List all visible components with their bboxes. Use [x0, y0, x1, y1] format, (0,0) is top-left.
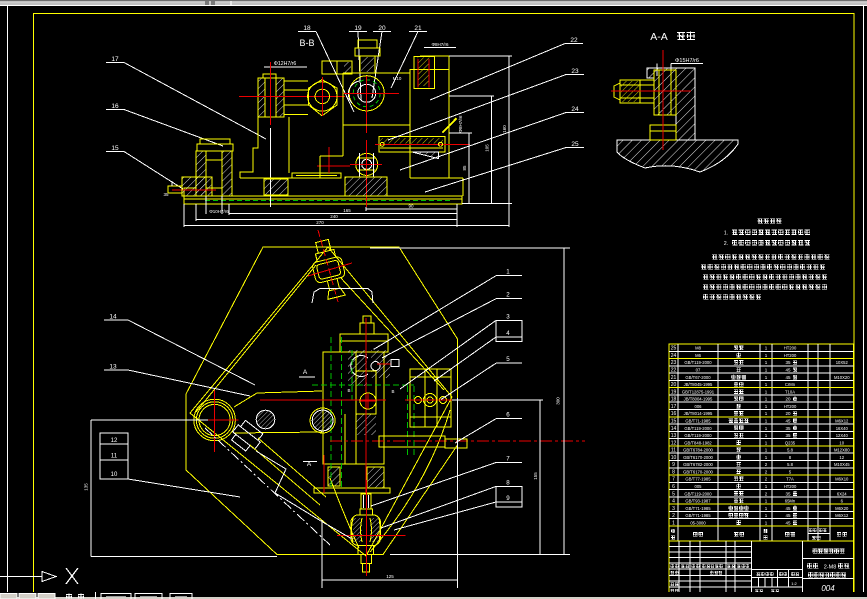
svg-text:19: 19 [354, 25, 362, 32]
svg-text:23: 23 [571, 68, 579, 75]
svg-text:12X40: 12X40 [836, 433, 849, 438]
svg-text:M6X12: M6X12 [835, 513, 849, 518]
svg-text:GB/T71-1985: GB/T71-1985 [685, 506, 711, 511]
svg-text:B: B [347, 388, 350, 393]
svg-text:1.: 1. [724, 231, 728, 237]
svg-text:15: 15 [671, 418, 677, 424]
svg-text:14: 14 [109, 314, 117, 321]
svg-text:14: 14 [671, 426, 677, 432]
svg-text:GB/T848-1982: GB/T848-1982 [684, 440, 712, 445]
svg-text:160: 160 [502, 125, 507, 133]
svg-text:35: 35 [163, 192, 169, 197]
svg-text:8: 8 [506, 479, 510, 486]
svg-text:21: 21 [414, 25, 422, 32]
svg-text:105: 105 [485, 144, 490, 152]
svg-text:10: 10 [111, 472, 118, 478]
svg-text:12: 12 [671, 440, 677, 446]
svg-text:A: A [303, 369, 308, 376]
svg-text:3: 3 [672, 506, 675, 512]
svg-text:Φ12H7/r6: Φ12H7/r6 [274, 61, 297, 67]
svg-text:A-A: A-A [650, 31, 668, 43]
svg-text:12: 12 [839, 455, 844, 460]
svg-text:6: 6 [506, 412, 510, 419]
svg-text:HT200: HT200 [784, 353, 797, 358]
svg-text:11: 11 [671, 448, 676, 454]
svg-text:20: 20 [785, 397, 791, 402]
svg-text:5: 5 [672, 491, 675, 497]
svg-text:6X24: 6X24 [837, 491, 847, 496]
svg-text:45: 45 [785, 520, 791, 525]
svg-text:13: 13 [109, 364, 117, 371]
svg-text:240: 240 [330, 214, 338, 219]
svg-text:45: 45 [785, 368, 791, 373]
svg-text:M10: M10 [393, 76, 402, 81]
svg-text:20: 20 [378, 25, 386, 32]
svg-text:2: 2 [506, 292, 510, 299]
svg-text:45: 45 [785, 506, 791, 511]
svg-text:GB/T12875-1991: GB/T12875-1991 [682, 389, 715, 394]
svg-text:M10X45: M10X45 [834, 462, 850, 467]
svg-text:2.: 2. [724, 241, 728, 247]
svg-text:10: 10 [839, 440, 844, 445]
svg-text:B: B [391, 389, 394, 394]
svg-text:M8: M8 [695, 346, 701, 351]
svg-text:07: 07 [696, 368, 701, 373]
svg-text:GB/T71-1985: GB/T71-1985 [685, 418, 711, 423]
svg-text:3: 3 [506, 313, 510, 320]
svg-text:16: 16 [111, 103, 119, 110]
svg-text:22: 22 [570, 37, 578, 44]
svg-text:7: 7 [672, 477, 675, 483]
svg-text:JB/T8014-1995: JB/T8014-1995 [684, 411, 713, 416]
svg-text:M6X10: M6X10 [835, 477, 849, 482]
svg-text:GB/T6784-2000: GB/T6784-2000 [683, 448, 713, 453]
svg-text:16X40: 16X40 [836, 426, 849, 431]
svg-text:GB/T67-2000: GB/T67-2000 [685, 375, 711, 380]
svg-text:10X52: 10X52 [836, 360, 849, 365]
svg-text:4: 4 [506, 330, 510, 337]
svg-text:18: 18 [303, 25, 311, 32]
svg-text:T10A: T10A [785, 389, 795, 394]
svg-text:GB/T119-2000: GB/T119-2000 [684, 491, 712, 496]
svg-text:M6X12: M6X12 [835, 418, 849, 423]
svg-text:17: 17 [671, 404, 677, 410]
svg-text:22: 22 [671, 368, 677, 374]
svg-text:25: 25 [571, 141, 579, 148]
svg-text:B-B: B-B [299, 38, 314, 48]
svg-text:15: 15 [111, 145, 119, 152]
svg-text:19: 19 [671, 389, 677, 395]
svg-text:35: 35 [785, 360, 791, 365]
svg-text:05-3000: 05-3000 [690, 520, 706, 525]
svg-text:GB/T119-2000: GB/T119-2000 [684, 426, 712, 431]
svg-text:5.8: 5.8 [787, 462, 793, 467]
svg-text:18: 18 [671, 397, 677, 403]
svg-text:7: 7 [506, 456, 510, 463]
svg-text:2: 2 [672, 513, 675, 519]
svg-text:T7A: T7A [786, 477, 794, 482]
svg-text:45: 45 [785, 513, 791, 518]
svg-text:005: 005 [695, 484, 703, 489]
svg-text:135: 135 [84, 483, 89, 491]
svg-text:24: 24 [671, 353, 677, 359]
svg-text:GB/T119-2000: GB/T119-2000 [684, 433, 712, 438]
svg-text:GB/T71-1985: GB/T71-1985 [685, 513, 711, 518]
svg-text:M6X20: M6X20 [835, 506, 849, 511]
svg-text:25: 25 [671, 346, 677, 352]
svg-text:155: 155 [533, 472, 538, 480]
svg-text:GB/T6782-2000: GB/T6782-2000 [683, 462, 713, 467]
svg-text:12: 12 [111, 438, 118, 444]
svg-text:HT200: HT200 [784, 484, 797, 489]
svg-text:45: 45 [785, 375, 791, 380]
svg-text:90: 90 [408, 204, 414, 209]
svg-text:20: 20 [671, 382, 677, 388]
svg-text:Φ8H7/r6: Φ8H7/r6 [431, 42, 449, 47]
svg-text:11: 11 [111, 454, 118, 460]
svg-text:M12X80: M12X80 [834, 448, 850, 453]
svg-text:8: 8 [672, 469, 675, 475]
svg-text:5.8: 5.8 [787, 448, 793, 453]
svg-text:Φ8H7/r6: Φ8H7/r6 [458, 115, 463, 133]
svg-text:23: 23 [671, 360, 677, 366]
svg-text:1:2: 1:2 [791, 581, 797, 586]
svg-text:JB/T8045-1995: JB/T8045-1995 [684, 382, 713, 387]
svg-text:1: 1 [506, 269, 510, 276]
svg-text:JB/T8004-1995: JB/T8004-1995 [684, 397, 713, 402]
svg-text:GB/T6170-2000: GB/T6170-2000 [683, 469, 713, 474]
svg-text:125: 125 [386, 574, 394, 579]
svg-text:13: 13 [671, 433, 677, 439]
svg-text:10: 10 [671, 455, 677, 461]
svg-text:GB/T77-1985: GB/T77-1985 [685, 477, 711, 482]
svg-text:165: 165 [343, 208, 351, 213]
svg-text:HT200: HT200 [784, 404, 797, 409]
svg-text:GB/T6170-2000: GB/T6170-2000 [683, 455, 713, 460]
svg-text:004: 004 [821, 584, 835, 593]
svg-text:A: A [307, 461, 312, 468]
svg-text:16: 16 [671, 411, 677, 417]
svg-text:M6: M6 [695, 353, 701, 358]
svg-text:9: 9 [506, 495, 510, 502]
svg-text:17: 17 [111, 56, 119, 63]
svg-text:HT200: HT200 [784, 346, 797, 351]
svg-text:21: 21 [671, 375, 677, 381]
svg-text:2-M8: 2-M8 [824, 565, 837, 571]
svg-text:5: 5 [506, 356, 510, 363]
svg-text:006: 006 [695, 404, 703, 409]
svg-text:CrMn: CrMn [785, 382, 796, 387]
svg-text:270: 270 [316, 220, 324, 225]
svg-text:Φ10H7/r6: Φ10H7/r6 [209, 209, 229, 214]
svg-text:6: 6 [672, 484, 675, 490]
svg-text:45: 45 [785, 418, 791, 423]
svg-text:35: 35 [785, 426, 791, 431]
svg-text:85: 85 [462, 165, 467, 171]
svg-text:GB/T93-1987: GB/T93-1987 [685, 499, 711, 504]
svg-text:35: 35 [785, 491, 791, 496]
svg-text:Q235: Q235 [785, 440, 796, 445]
svg-text:4: 4 [672, 499, 675, 505]
svg-text:M10X20: M10X20 [834, 375, 850, 380]
svg-text:GB/T119-2000: GB/T119-2000 [684, 360, 712, 365]
svg-text:35: 35 [785, 433, 791, 438]
svg-text:9: 9 [672, 462, 675, 468]
svg-text:300: 300 [556, 397, 561, 405]
svg-text:20: 20 [785, 411, 791, 416]
svg-text:65Mn: 65Mn [785, 499, 796, 504]
svg-text:24: 24 [571, 106, 579, 113]
